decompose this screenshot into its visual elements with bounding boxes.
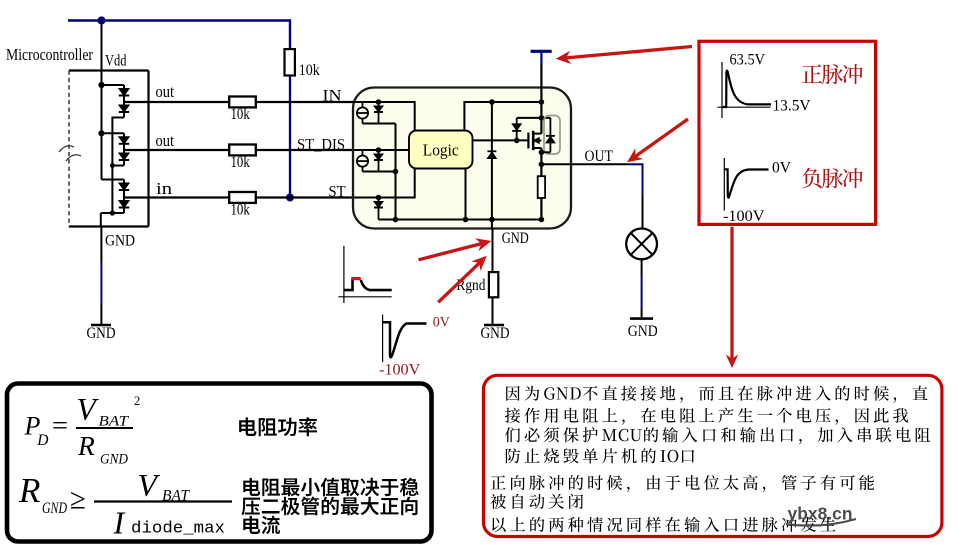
svg-text:I: I [113,505,126,541]
svg-text:ST: ST [329,184,346,201]
svg-text:R: R [77,430,95,461]
svg-text:10k: 10k [299,62,320,79]
svg-text:ST_DIS: ST_DIS [297,136,345,153]
svg-text:10k: 10k [231,154,251,171]
svg-text:out: out [156,82,175,101]
svg-text:D: D [36,432,48,449]
svg-text:in: in [156,179,172,198]
svg-text:BAT: BAT [162,488,190,505]
svg-text:0V: 0V [433,314,450,330]
svg-text:GND: GND [481,325,510,342]
svg-text:GND: GND [502,230,529,247]
svg-text:GND: GND [628,323,658,340]
svg-text:OUT: OUT [585,148,614,165]
svg-text:Microcontroller: Microcontroller [6,45,93,64]
svg-text:13.5V: 13.5V [773,97,812,114]
svg-text:10k: 10k [231,106,251,123]
svg-text:GND: GND [100,452,128,468]
svg-text:GND: GND [87,325,116,342]
svg-text:2: 2 [134,394,140,408]
svg-text:BAT: BAT [99,413,130,430]
svg-text:GND: GND [105,232,135,249]
svg-text:-100V: -100V [379,361,421,378]
svg-text:diode_max: diode_max [131,520,225,539]
svg-text:0V: 0V [772,159,791,176]
svg-text:Logic: Logic [423,140,459,159]
svg-text:=: = [52,411,68,440]
svg-text:≥: ≥ [70,484,86,516]
svg-text:Vdd: Vdd [105,52,127,69]
svg-text:63.5V: 63.5V [730,51,766,68]
svg-text:IN: IN [323,88,342,105]
svg-text:R: R [18,471,40,510]
svg-text:10k: 10k [231,202,251,219]
svg-text:-100V: -100V [723,208,765,225]
svg-text:out: out [156,131,175,150]
svg-text:GND: GND [42,500,67,517]
svg-text:ybx8.cn: ybx8.cn [788,504,853,524]
